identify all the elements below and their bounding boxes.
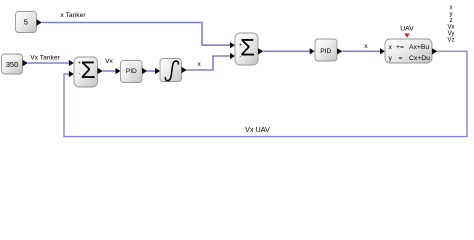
output port arrow of sum S1 <box>98 68 103 74</box>
PID block P1 <box>121 61 143 83</box>
output port arrow of state-space UAV <box>432 48 437 54</box>
sum block S1 <box>74 57 98 87</box>
svg-text:=: = <box>399 55 403 62</box>
wire from PID P1 to integrator <box>147 68 160 74</box>
svg-text:x: x <box>364 43 368 50</box>
svg-text:Vx Tanker: Vx Tanker <box>30 54 60 61</box>
output signal list labels x y z Vx Vy Vz <box>447 5 454 44</box>
svg-text:y: y <box>450 12 453 18</box>
wire from PID P2 to state-space UAV <box>342 48 385 54</box>
svg-text:Vx: Vx <box>447 25 454 31</box>
svg-text:y: y <box>389 55 393 62</box>
red annotation arrow under UAV label <box>404 34 409 38</box>
PID block P2 <box>315 39 337 61</box>
svg-text:x: x <box>389 44 393 51</box>
output port arrow of PID P1 <box>142 68 147 74</box>
svg-text:UAV: UAV <box>400 25 414 32</box>
output port arrow of constant 350 <box>23 60 28 66</box>
feedback wire from UAV output to sum S1 - input (Vx UAV) <box>64 51 467 136</box>
output port arrow of PID P2 <box>337 48 342 54</box>
wire from constant 5 to sum S2 top input <box>42 23 235 49</box>
svg-text:Σ: Σ <box>240 34 255 61</box>
svg-text:z: z <box>450 18 453 24</box>
output port arrow of constant 5 <box>37 19 42 25</box>
svg-text:x: x <box>450 5 453 11</box>
constant block "5" <box>16 12 37 33</box>
state-space block UAV <box>385 39 432 63</box>
wire from constant 350 to sum S1 + input <box>28 60 74 66</box>
integrator block <box>160 59 182 82</box>
svg-text:PID: PID <box>126 68 137 75</box>
svg-text:5: 5 <box>24 17 28 26</box>
svg-text:Vx: Vx <box>105 58 113 65</box>
output port arrow of integrator <box>182 67 187 73</box>
output port arrow of sum S2 <box>258 48 263 54</box>
svg-text:PID: PID <box>320 48 331 55</box>
svg-text:Vy: Vy <box>448 31 455 37</box>
svg-text:350: 350 <box>6 60 19 69</box>
sum block S2 <box>235 33 258 65</box>
svg-text:x: x <box>197 61 201 68</box>
svg-text:Vx UAV: Vx UAV <box>245 125 270 134</box>
svg-text:x Tanker: x Tanker <box>60 12 86 19</box>
svg-text:+: + <box>78 61 81 67</box>
wire from sum S1 to PID P1 <box>103 68 121 74</box>
svg-text:+=: += <box>396 44 404 51</box>
svg-text:+: + <box>239 43 242 49</box>
wire from integrator to sum S2 - input <box>187 53 235 70</box>
svg-text:Vz: Vz <box>447 38 454 44</box>
svg-text:Σ: Σ <box>81 57 96 84</box>
wire from sum S2 to PID P2 <box>263 48 314 54</box>
svg-text:Ax+Bu: Ax+Bu <box>409 44 429 51</box>
constant block "350" <box>2 54 23 74</box>
svg-text:Cx+Du: Cx+Du <box>409 55 430 62</box>
